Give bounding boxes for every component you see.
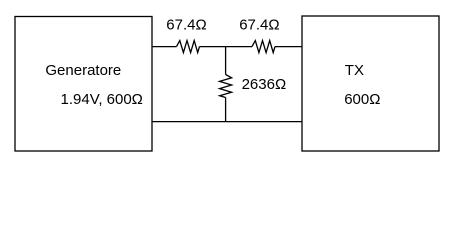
wire top middle segment: [200, 46, 253, 48]
resistor R3 2636Ω (shunt, vertical): [220, 75, 232, 98]
svg-text:600Ω: 600Ω: [344, 91, 380, 108]
wire top right segment: [275, 46, 302, 48]
wire top left segment: [152, 46, 177, 48]
svg-text:67.4Ω: 67.4Ω: [239, 16, 279, 33]
svg-text:1.94V, 600Ω: 1.94V, 600Ω: [61, 91, 143, 108]
wire vertical lower segment: [225, 98, 227, 122]
svg-text:Generatore: Generatore: [45, 62, 121, 79]
svg-text:67.4Ω: 67.4Ω: [166, 16, 206, 33]
generator box (Generatore): [15, 17, 152, 152]
wire vertical upper segment: [225, 47, 227, 75]
svg-text:TX: TX: [345, 62, 364, 79]
load box (TX): [302, 16, 439, 151]
resistor R1 67.4Ω (series, left): [177, 41, 200, 53]
wire bottom return: [152, 121, 302, 123]
resistor R2 67.4Ω (series, right): [252, 41, 275, 53]
svg-text:2636Ω: 2636Ω: [242, 76, 287, 93]
